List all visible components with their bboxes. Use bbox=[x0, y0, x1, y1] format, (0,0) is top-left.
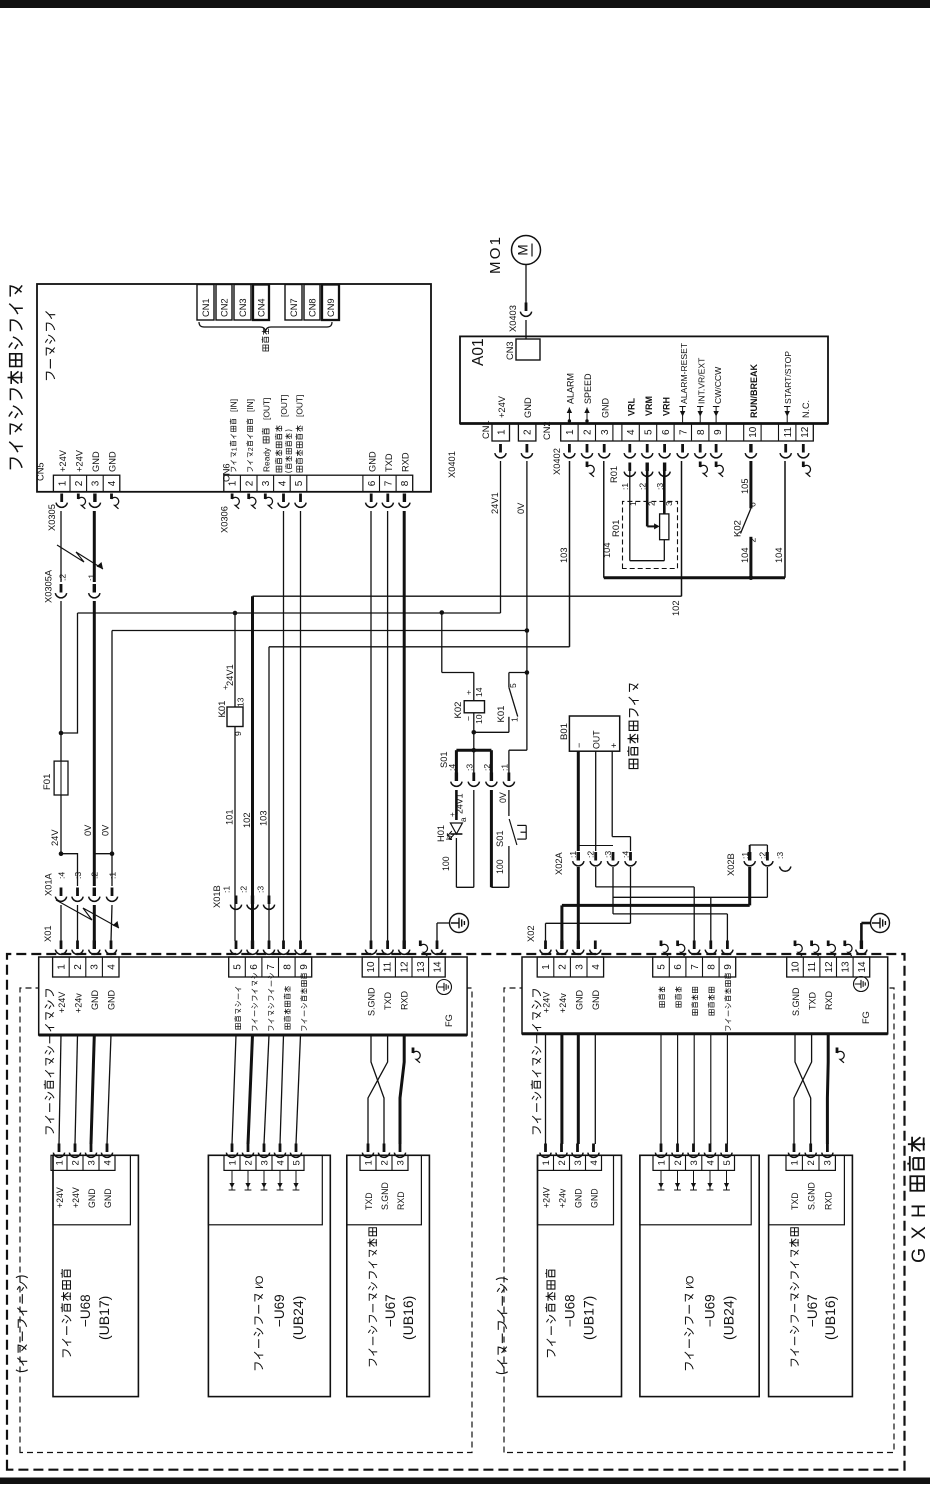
svg-text:b: b bbox=[445, 835, 454, 840]
svg-text:N.C.: N.C. bbox=[801, 400, 811, 418]
connector X02B bbox=[726, 852, 791, 876]
connector CN2 bbox=[216, 285, 232, 321]
svg-text:5: 5 bbox=[294, 480, 305, 486]
svg-text:S.GND: S.GND bbox=[807, 1182, 817, 1210]
svg-text:4: 4 bbox=[705, 1160, 716, 1165]
svg-text::3: :3 bbox=[775, 852, 785, 859]
svg-text:GND: GND bbox=[107, 990, 117, 1011]
feeder base I/O U69 (UB24) right bbox=[640, 1144, 759, 1397]
svg-text:10: 10 bbox=[791, 961, 802, 973]
svg-text:VRH: VRH bbox=[662, 397, 672, 416]
svg-text:1: 1 bbox=[657, 1160, 668, 1165]
svg-text::2: :2 bbox=[90, 872, 100, 879]
svg-text:1: 1 bbox=[57, 480, 68, 486]
feeder power unit U68 (UB17) right bbox=[538, 1144, 622, 1397]
svg-text:14: 14 bbox=[474, 687, 484, 697]
potentiometer R01 connector bbox=[609, 463, 670, 491]
wire +24V to junction bbox=[59, 601, 64, 735]
connector X01A bbox=[44, 872, 118, 902]
svg-text:(UB17): (UB17) bbox=[96, 1296, 112, 1340]
wire 24V1 bus bbox=[78, 461, 501, 686]
connector CN1 strip of A01 bbox=[481, 395, 536, 441]
wire X02A.4 to X02.1 bbox=[546, 867, 631, 941]
svg-text:CN9: CN9 bbox=[326, 298, 336, 317]
svg-text:5: 5 bbox=[508, 683, 518, 688]
label GXH本体側 bbox=[907, 1137, 930, 1263]
title フラックス転写ユニット bbox=[8, 285, 23, 469]
svg-text:4: 4 bbox=[589, 1160, 600, 1165]
svg-text:2: 2 bbox=[243, 1160, 254, 1165]
wire X02A.3 to X02.8 and X02.9 bbox=[613, 867, 767, 941]
svg-text:R01: R01 bbox=[611, 520, 622, 537]
svg-text:4: 4 bbox=[106, 964, 117, 970]
svg-text:OUT: OUT bbox=[592, 730, 602, 749]
relay contact K01 bbox=[496, 673, 520, 733]
svg-text:(UB16): (UB16) bbox=[822, 1296, 838, 1340]
svg-text:a: a bbox=[459, 817, 468, 822]
wires +24V GND to U68 right bbox=[546, 1035, 596, 1144]
fuse F01 bbox=[42, 733, 68, 854]
svg-text:3: 3 bbox=[91, 480, 102, 486]
svg-text:RXD: RXD bbox=[401, 452, 411, 472]
svg-text:GND: GND bbox=[601, 398, 611, 419]
X02 hooks bbox=[540, 941, 867, 956]
svg-text:3: 3 bbox=[573, 1160, 584, 1165]
svg-text:5: 5 bbox=[233, 964, 244, 970]
svg-text:5: 5 bbox=[644, 429, 655, 435]
svg-text::3: :3 bbox=[603, 851, 613, 858]
svg-text:K01: K01 bbox=[217, 701, 228, 718]
svg-text:10: 10 bbox=[748, 426, 759, 438]
ground FG in X02 bbox=[854, 977, 871, 1024]
node K02-K01 junction bbox=[472, 730, 509, 735]
svg-text:7: 7 bbox=[678, 429, 689, 435]
svg-text:X0305: X0305 bbox=[47, 504, 57, 531]
svg-text:101: 101 bbox=[225, 809, 235, 825]
svg-text:X01: X01 bbox=[43, 925, 53, 942]
svg-text:GND: GND bbox=[90, 990, 100, 1011]
svg-text:(UB17): (UB17) bbox=[581, 1296, 597, 1340]
svg-text:TXD: TXD bbox=[364, 1192, 374, 1210]
svg-text:X02: X02 bbox=[526, 925, 536, 942]
svg-text:5: 5 bbox=[291, 1160, 302, 1165]
svg-text:VRM: VRM bbox=[644, 396, 654, 416]
svg-text:3: 3 bbox=[574, 964, 585, 970]
svg-text:[OUT]: [OUT] bbox=[279, 395, 289, 417]
wire 102 ALARM-RESET bus (bold) bbox=[242, 461, 682, 941]
svg-text:GND: GND bbox=[575, 990, 585, 1011]
X01 hooks bbox=[55, 941, 442, 956]
CN2 pin labels bbox=[566, 342, 812, 423]
svg-text:2: 2 bbox=[558, 964, 569, 970]
svg-text:X0403: X0403 bbox=[508, 305, 518, 332]
svg-text:3: 3 bbox=[689, 1160, 700, 1165]
wires S.GND TXD RXD crossover right bbox=[794, 1035, 844, 1144]
brace 未使用 (unused CN connectors) bbox=[199, 322, 332, 351]
svg-text:GND: GND bbox=[574, 1188, 584, 1208]
svg-text:GND: GND bbox=[108, 451, 118, 472]
connector X0401 bbox=[447, 444, 533, 478]
svg-text::4: :4 bbox=[57, 872, 67, 879]
svg-text:I⁄O: I⁄O bbox=[685, 1275, 697, 1289]
svg-text:104: 104 bbox=[774, 547, 784, 563]
svg-text:11: 11 bbox=[783, 427, 794, 438]
connector X01B bbox=[212, 885, 275, 909]
svg-text:+24V: +24V bbox=[497, 395, 507, 418]
svg-text:CN8: CN8 bbox=[308, 298, 318, 317]
svg-text:[IN]: [IN] bbox=[245, 399, 255, 412]
svg-text:ALARM: ALARM bbox=[566, 373, 576, 404]
wire motor bbox=[525, 265, 527, 340]
svg-text:13: 13 bbox=[840, 961, 851, 973]
svg-text:13: 13 bbox=[416, 961, 427, 973]
svg-text:0V: 0V bbox=[101, 824, 111, 836]
svg-text:9: 9 bbox=[233, 731, 243, 736]
svg-text::2: :2 bbox=[758, 852, 768, 859]
svg-text:CN6: CN6 bbox=[222, 463, 232, 482]
svg-text:(UB24): (UB24) bbox=[721, 1296, 737, 1340]
connector CN7 bbox=[285, 285, 302, 321]
svg-text:GND: GND bbox=[87, 1188, 97, 1208]
svg-text:7: 7 bbox=[266, 964, 277, 970]
label (フィーダベース) right bbox=[496, 1278, 508, 1374]
svg-text:6: 6 bbox=[249, 964, 260, 970]
svg-text:I⁄O: I⁄O bbox=[254, 1275, 266, 1289]
svg-text:0V: 0V bbox=[83, 824, 93, 836]
connector X01 drawer strip bbox=[39, 925, 467, 1035]
svg-text:8: 8 bbox=[696, 429, 707, 435]
svg-text:TXD: TXD bbox=[808, 991, 818, 1010]
svg-text:INT.VR/EXT: INT.VR/EXT bbox=[697, 357, 707, 404]
svg-text:CN7: CN7 bbox=[289, 298, 299, 317]
svg-text:+24V: +24V bbox=[542, 992, 552, 1013]
relay contact K02 bbox=[733, 502, 758, 578]
svg-text:11: 11 bbox=[807, 961, 818, 972]
svg-text:2: 2 bbox=[379, 1160, 390, 1165]
wire GND bold from CN5.3 bbox=[93, 511, 96, 582]
svg-text::1: :1 bbox=[620, 483, 630, 490]
svg-text:−U68: −U68 bbox=[563, 1294, 578, 1327]
svg-text:100: 100 bbox=[441, 856, 451, 871]
svg-text:0V: 0V bbox=[516, 502, 526, 514]
feeder base I/O U69 (UB24) left bbox=[208, 1144, 330, 1397]
svg-text:14: 14 bbox=[433, 961, 444, 973]
svg-text:24V1: 24V1 bbox=[490, 492, 500, 514]
wire B01 minus (bold) bbox=[577, 751, 580, 851]
svg-text:11: 11 bbox=[383, 961, 394, 972]
svg-text:GND: GND bbox=[590, 1188, 600, 1208]
lamp H01 bbox=[436, 790, 474, 887]
feeder power unit U68 (UB17) left bbox=[51, 1144, 138, 1397]
wire 0V bus bbox=[112, 461, 529, 633]
svg-text:−U67: −U67 bbox=[805, 1294, 820, 1327]
svg-text::3: :3 bbox=[256, 886, 266, 893]
junction 0V bbox=[94, 851, 114, 856]
svg-text::4: :4 bbox=[621, 851, 631, 858]
svg-text:1: 1 bbox=[565, 429, 576, 435]
page edge bar bottom bbox=[0, 1478, 930, 1485]
wire X02B.1 to X02.2 (bold) bbox=[562, 867, 750, 941]
svg-text:[IN]: [IN] bbox=[228, 399, 238, 412]
wire RXD CN6.8 to X01.12 bbox=[403, 511, 406, 941]
svg-text:9: 9 bbox=[299, 964, 310, 970]
svg-text:S01: S01 bbox=[495, 830, 505, 847]
svg-text:102: 102 bbox=[671, 600, 681, 616]
svg-text:7: 7 bbox=[383, 480, 394, 486]
svg-text:X0401: X0401 bbox=[447, 451, 457, 478]
svg-text:2: 2 bbox=[673, 1160, 684, 1165]
wire 101 K01 to X01.5 bbox=[225, 613, 236, 941]
svg-text:CN5: CN5 bbox=[36, 462, 46, 481]
svg-text:K02: K02 bbox=[453, 702, 464, 719]
svg-text:K02: K02 bbox=[733, 520, 744, 537]
X02 pin labels bbox=[542, 973, 835, 1031]
svg-text:14: 14 bbox=[857, 961, 868, 973]
wire 24V1 branch bbox=[61, 613, 78, 733]
svg-text:GND: GND bbox=[103, 1188, 113, 1208]
cable break slash 2 bbox=[56, 900, 119, 928]
wires +24V GND to U68 left bbox=[59, 1035, 111, 1144]
svg-text:TXD: TXD bbox=[384, 453, 394, 472]
svg-text:4: 4 bbox=[626, 429, 637, 435]
wire TXD CN6.7 to X01.11 bbox=[387, 511, 389, 941]
svg-text:X0402: X0402 bbox=[552, 448, 562, 475]
svg-text:[OUT]: [OUT] bbox=[262, 398, 272, 420]
svg-text:CN4: CN4 bbox=[257, 298, 267, 317]
svg-text:RXD: RXD bbox=[824, 990, 834, 1010]
svg-text:+24V: +24V bbox=[542, 1187, 552, 1208]
connector CN2 strip of A01 bbox=[542, 421, 813, 441]
connector CN9 bbox=[322, 285, 339, 321]
svg-text:START/STOP: START/STOP bbox=[783, 351, 793, 404]
svg-text:9: 9 bbox=[713, 429, 724, 435]
svg-text:−U67: −U67 bbox=[383, 1294, 398, 1327]
wire 0V thin from bus bbox=[111, 631, 113, 887]
svg-text::3: :3 bbox=[465, 764, 475, 771]
svg-text:102: 102 bbox=[242, 812, 252, 828]
svg-text:−U69: −U69 bbox=[703, 1294, 718, 1327]
svg-text:9: 9 bbox=[723, 964, 734, 970]
svg-text:12: 12 bbox=[399, 961, 410, 973]
svg-text:1: 1 bbox=[510, 717, 520, 722]
svg-text:6: 6 bbox=[673, 964, 684, 970]
svg-text:1: 1 bbox=[363, 1160, 374, 1165]
labels 24V 0V bbox=[50, 824, 111, 846]
svg-text:4: 4 bbox=[275, 1160, 286, 1165]
svg-text:8: 8 bbox=[282, 964, 293, 970]
svg-text:(UB24): (UB24) bbox=[290, 1296, 306, 1340]
svg-text:+: + bbox=[609, 743, 619, 748]
svg-text::2: :2 bbox=[239, 886, 249, 893]
svg-text:3: 3 bbox=[259, 1160, 270, 1165]
svg-text:12: 12 bbox=[800, 426, 811, 438]
svg-text:3: 3 bbox=[90, 964, 101, 970]
CN6 pin labels bbox=[228, 395, 410, 473]
wires X01A to X01 bbox=[61, 905, 112, 941]
svg-text:S.GND: S.GND bbox=[380, 1182, 390, 1210]
svg-text:TXD: TXD bbox=[383, 991, 393, 1010]
svg-text:1: 1 bbox=[496, 429, 507, 435]
svg-text:FG: FG bbox=[861, 1011, 871, 1024]
feeder serial comm U67 (UB16) left bbox=[347, 1144, 430, 1397]
svg-text:(UB16): (UB16) bbox=[400, 1296, 416, 1340]
feeder serial comm U67 (UB16) right bbox=[769, 1144, 853, 1397]
feeder base boundary left (inner dashed) bbox=[20, 988, 472, 1453]
svg-text:1: 1 bbox=[54, 1160, 65, 1165]
svg-text:+24V: +24V bbox=[71, 1187, 81, 1208]
connector X0305 bbox=[47, 494, 119, 532]
svg-text:RXD: RXD bbox=[400, 990, 410, 1010]
svg-text:10: 10 bbox=[474, 714, 484, 724]
svg-text::2: :2 bbox=[586, 851, 596, 858]
motor driver A01 bbox=[460, 336, 828, 423]
svg-text:RXD: RXD bbox=[823, 1191, 833, 1210]
svg-text::3: :3 bbox=[73, 872, 83, 879]
connector CN3 bbox=[234, 285, 251, 321]
svg-text:1: 1 bbox=[57, 964, 68, 970]
svg-text:7: 7 bbox=[690, 964, 701, 970]
svg-text:2: 2 bbox=[74, 480, 85, 486]
svg-text:X01A: X01A bbox=[44, 872, 54, 896]
svg-text:M: M bbox=[516, 244, 531, 255]
connector X0402 bbox=[552, 444, 810, 477]
svg-text:24V1: 24V1 bbox=[225, 664, 235, 686]
svg-text:GND: GND bbox=[91, 451, 101, 472]
wire 0V drop to S01 bbox=[509, 631, 529, 774]
connector X0403 bbox=[508, 303, 532, 333]
wire CN6.5 to X01.9 bbox=[300, 511, 302, 941]
svg-text:−U69: −U69 bbox=[272, 1294, 287, 1327]
svg-text:5: 5 bbox=[657, 964, 668, 970]
svg-text::1: :1 bbox=[86, 574, 96, 581]
svg-text:RXD: RXD bbox=[396, 1191, 406, 1210]
wire 105 RUN/BREAK (bold) bbox=[740, 461, 751, 508]
svg-text:MO1: MO1 bbox=[487, 235, 504, 274]
svg-text:2: 2 bbox=[248, 447, 255, 451]
svg-text:FG: FG bbox=[444, 1014, 454, 1027]
svg-text:CN1: CN1 bbox=[201, 298, 211, 317]
svg-text:X0306: X0306 bbox=[220, 506, 230, 533]
svg-text:6: 6 bbox=[661, 429, 672, 435]
connector X0305A bbox=[44, 569, 101, 603]
svg-text:[OUT]: [OUT] bbox=[295, 395, 305, 417]
svg-text:3: 3 bbox=[823, 1160, 834, 1165]
wire 104 GND bus (bold) bbox=[602, 461, 785, 580]
svg-text:4: 4 bbox=[591, 964, 602, 970]
connector CN5 pin strip bbox=[36, 449, 120, 492]
wire X02A.1 to X02.3 (bold) bbox=[577, 867, 580, 941]
svg-text:CN3: CN3 bbox=[238, 298, 248, 317]
connector CN6 pin strip bbox=[222, 463, 413, 491]
wire GND bold down bbox=[93, 601, 96, 886]
label フィーダ用ドロワーコネクタ left bbox=[44, 990, 54, 1135]
connector X02 drawer strip bbox=[522, 925, 888, 1033]
wire GND drop CN2.3 bbox=[603, 461, 605, 578]
svg-text:104: 104 bbox=[740, 547, 750, 563]
feeder base boundary right (inner dashed) bbox=[504, 988, 894, 1453]
svg-text:CN3: CN3 bbox=[505, 341, 515, 360]
sensor B01 回転検出センサ bbox=[559, 684, 639, 769]
svg-text:6: 6 bbox=[367, 480, 378, 486]
svg-text:3: 3 bbox=[261, 480, 272, 486]
svg-text::1: :1 bbox=[222, 886, 232, 893]
svg-text:3: 3 bbox=[395, 1160, 406, 1165]
GXH main body boundary (outer dashed) bbox=[7, 954, 905, 1470]
wire S.GND CN6.6 to X01.10 bbox=[370, 511, 372, 941]
relay coil K01 bbox=[217, 685, 246, 736]
wire 24V1 to K02 coil bbox=[442, 613, 474, 701]
wire 103 drop from CN2.1 bbox=[569, 461, 571, 647]
svg-text::2: :2 bbox=[57, 574, 67, 581]
svg-text::4: :4 bbox=[447, 764, 457, 771]
servo amplifier box サーボアンプ bbox=[37, 284, 431, 492]
svg-text:SPEED: SPEED bbox=[583, 373, 593, 404]
label フィーダ用ドロワーコネクタ right bbox=[531, 990, 541, 1135]
svg-text:2: 2 bbox=[70, 1160, 81, 1165]
ground FG X02 external bbox=[861, 914, 889, 942]
relay coil K02 bbox=[453, 687, 485, 732]
svg-text:CN2: CN2 bbox=[542, 421, 552, 440]
svg-text:4: 4 bbox=[107, 480, 118, 486]
connector X02A bbox=[554, 846, 636, 876]
wire CN6.4 to X01.8 bbox=[283, 511, 285, 941]
svg-text:H01: H01 bbox=[436, 825, 446, 842]
wire X02B.2 down bbox=[766, 867, 768, 897]
svg-text:6: 6 bbox=[748, 502, 758, 507]
svg-text:GND: GND bbox=[523, 397, 533, 418]
svg-text::1: :1 bbox=[568, 851, 578, 858]
svg-text:105: 105 bbox=[740, 478, 750, 494]
connector CN8 bbox=[304, 285, 320, 321]
svg-text:0V: 0V bbox=[498, 792, 508, 803]
connector CN3 bbox=[505, 339, 540, 360]
svg-text:GND: GND bbox=[368, 451, 378, 472]
svg-text:G X H: G X H bbox=[908, 1202, 930, 1263]
svg-text:5: 5 bbox=[722, 1160, 733, 1165]
svg-text:RUN/BREAK: RUN/BREAK bbox=[749, 363, 759, 418]
svg-text:+24v: +24v bbox=[558, 1188, 568, 1208]
connector CN1 bbox=[197, 285, 214, 321]
svg-text:X01B: X01B bbox=[212, 885, 222, 908]
svg-text:Ready: Ready bbox=[262, 447, 272, 472]
svg-text:−: − bbox=[574, 743, 584, 748]
svg-text:VRL: VRL bbox=[627, 397, 637, 416]
wire B01 plus bbox=[612, 751, 630, 851]
svg-text:3: 3 bbox=[86, 1160, 97, 1165]
svg-text:1: 1 bbox=[541, 964, 552, 970]
svg-text:103: 103 bbox=[559, 547, 569, 563]
svg-text:2: 2 bbox=[557, 1160, 568, 1165]
svg-text:3: 3 bbox=[600, 429, 611, 435]
svg-text::1: :1 bbox=[108, 872, 118, 879]
svg-text:2: 2 bbox=[523, 429, 534, 435]
wire B01 OUT bbox=[595, 751, 597, 851]
svg-text:+24V: +24V bbox=[57, 992, 67, 1013]
svg-text:13: 13 bbox=[236, 697, 246, 707]
connector CN4 bbox=[253, 285, 269, 321]
svg-text:2: 2 bbox=[806, 1160, 817, 1165]
svg-text:+: + bbox=[220, 685, 230, 690]
svg-text:12: 12 bbox=[824, 961, 835, 973]
svg-text:4: 4 bbox=[102, 1160, 113, 1165]
svg-text::1: :1 bbox=[500, 764, 510, 771]
X01 pin labels bbox=[57, 973, 410, 1031]
svg-text:−U68: −U68 bbox=[78, 1294, 93, 1327]
svg-text:K01: K01 bbox=[496, 706, 507, 723]
svg-text:8: 8 bbox=[400, 480, 411, 486]
svg-text:2: 2 bbox=[582, 429, 593, 435]
svg-text:10: 10 bbox=[366, 961, 377, 973]
